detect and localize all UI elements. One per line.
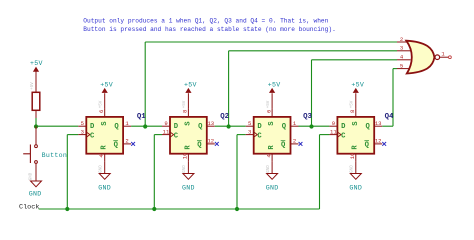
ground (button) (35, 163, 37, 181)
svg-text:Button: Button (42, 152, 68, 159)
power +5V (FF1) (100, 81, 114, 109)
svg-text:+5V: +5V (100, 100, 104, 108)
svg-text:+5V: +5V (100, 81, 113, 88)
svg-text:GND: GND (30, 172, 34, 180)
wire clock riser to FF2 C (153, 135, 155, 209)
svg-text:Q: Q (282, 123, 287, 131)
svg-text:S: S (101, 121, 109, 126)
svg-text:Output only produces a 1 when: Output only produces a 1 when Q1, Q2, Q3… (83, 18, 328, 25)
svg-text:Q: Q (365, 142, 370, 150)
svg-text:Q: Q (197, 142, 202, 150)
svg-text:5: 5 (248, 120, 251, 127)
wire clock riser to FF4 C (319, 135, 321, 209)
junction Q2 (227, 124, 231, 128)
wire Q1 riser to gate (144, 42, 146, 126)
svg-text:C: C (90, 133, 95, 141)
svg-text:Q: Q (114, 142, 119, 150)
svg-text:GND: GND (349, 184, 362, 191)
svg-text:Q4: Q4 (385, 113, 394, 121)
svg-text:GND: GND (98, 184, 111, 191)
svg-text:C: C (257, 133, 262, 141)
D flip-flop U1A (78, 36, 451, 192)
svg-text:D: D (90, 123, 95, 131)
svg-text:S: S (268, 121, 276, 126)
svg-text:C: C (341, 133, 346, 141)
svg-text:+5V: +5V (351, 81, 364, 88)
power +5V (FF4) (351, 81, 365, 109)
power +5V (FF3) (267, 81, 281, 109)
switch SW1 Button (35, 126, 37, 145)
svg-text:Clock: Clock (19, 203, 39, 211)
NOR gate U3A (4-input) (397, 36, 451, 74)
ground (FF4) (349, 162, 362, 192)
wire Q2 to next D (215, 125, 246, 127)
svg-text:6: 6 (265, 110, 272, 113)
svg-text:+5V: +5V (30, 60, 43, 67)
ground (FF3) (266, 162, 279, 192)
svg-text:3: 3 (81, 128, 84, 135)
junction clock/FF3 (235, 207, 239, 211)
resistor R1 (32, 92, 40, 110)
svg-text:Q2: Q2 (220, 113, 229, 121)
svg-text:9: 9 (332, 120, 335, 127)
svg-text:R: R (352, 145, 360, 150)
svg-text:+5V: +5V (351, 100, 355, 108)
wire clock riser to FF3 C (236, 135, 238, 209)
svg-text:5: 5 (81, 120, 84, 127)
svg-text:11: 11 (330, 128, 337, 135)
D flip-flop U1B (131, 36, 451, 192)
ground (FF1) (98, 162, 111, 192)
wire Q1 to next D (131, 125, 162, 127)
wire Q3 to next D (299, 125, 330, 127)
svg-text:13: 13 (375, 120, 382, 127)
D flip-flop U2A (131, 36, 451, 192)
svg-text:+5V: +5V (183, 100, 187, 108)
svg-text:3: 3 (400, 45, 403, 52)
no-connect flag /Q pin U1B (215, 142, 219, 146)
svg-text:2: 2 (125, 138, 128, 145)
D flip-flop U2B (131, 36, 451, 192)
svg-text:+5V: +5V (268, 81, 281, 88)
no-connect flag /Q pin U1A (131, 142, 135, 146)
svg-text:Q: Q (114, 123, 119, 131)
svg-text:8: 8 (349, 110, 356, 113)
svg-text:GND: GND (266, 184, 279, 191)
wire resistor to node (35, 110, 37, 118)
svg-text:GND: GND (100, 165, 104, 173)
svg-text:6: 6 (98, 110, 105, 113)
wire clock riser to FF1 C (66, 135, 68, 209)
junction clock/FF1 (65, 207, 69, 211)
svg-text:GND: GND (267, 165, 271, 173)
svg-text:10: 10 (349, 152, 356, 159)
svg-text:2: 2 (293, 138, 296, 145)
no-connect flag /Q pin U2B (382, 142, 386, 146)
svg-text:D: D (257, 123, 262, 131)
svg-text:GND: GND (29, 190, 42, 197)
junction resistor/button/D (34, 124, 38, 128)
svg-text:13: 13 (207, 120, 214, 127)
svg-text:R: R (184, 145, 192, 150)
svg-text:11: 11 (163, 128, 170, 135)
svg-text:Button is pressed and has reac: Button is pressed and has reached a stab… (83, 26, 335, 33)
svg-text:+5V: +5V (267, 100, 271, 108)
svg-text:S: S (185, 121, 193, 126)
svg-text:R: R (268, 145, 276, 150)
svg-text:9: 9 (164, 120, 167, 127)
svg-text:Q3: Q3 (303, 113, 312, 121)
svg-text:GND: GND (183, 165, 187, 173)
svg-text:8: 8 (182, 110, 189, 113)
svg-text:+5V: +5V (31, 82, 35, 90)
wire Q4 to gate (382, 125, 393, 127)
power +5V (FF2) (183, 81, 197, 109)
svg-text:+5V: +5V (184, 81, 197, 88)
svg-text:D: D (341, 123, 346, 131)
svg-text:12: 12 (207, 138, 214, 145)
svg-text:12: 12 (375, 138, 382, 145)
wire clock bus horizontal (39, 208, 320, 210)
ground (FF2) (182, 162, 195, 192)
wire Q2 riser to gate (228, 51, 230, 126)
svg-text:3: 3 (248, 128, 251, 135)
svg-text:R: R (101, 145, 109, 150)
svg-text:C: C (174, 133, 179, 141)
svg-text:10: 10 (182, 152, 189, 159)
svg-text:5: 5 (400, 62, 403, 69)
junction clock/FF2 (152, 207, 156, 211)
wire Q3 riser to gate (311, 60, 313, 126)
svg-text:2: 2 (400, 36, 403, 43)
svg-text:D: D (174, 123, 179, 131)
junction Q1 (143, 124, 147, 128)
svg-text:Q: Q (198, 123, 203, 131)
svg-text:GND: GND (351, 165, 355, 173)
svg-text:S: S (352, 121, 360, 126)
svg-text:Q: Q (365, 123, 370, 131)
junction Q3 (309, 124, 313, 128)
svg-text:Q: Q (281, 142, 286, 150)
no-connect flag /Q pin U2A (299, 142, 303, 146)
wire node to FF1 D (36, 125, 78, 127)
svg-text:GND: GND (182, 184, 195, 191)
svg-text:Q1: Q1 (137, 113, 146, 121)
